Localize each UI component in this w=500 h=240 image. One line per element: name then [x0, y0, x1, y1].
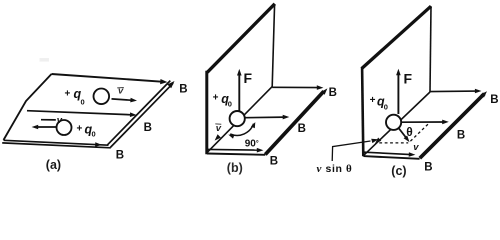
svg-text:v sin θ: v sin θ [317, 163, 353, 175]
svg-text:(c): (c) [391, 164, 406, 178]
svg-text:0: 0 [228, 100, 232, 109]
svg-text:B: B [329, 87, 337, 99]
svg-text:+: + [77, 123, 83, 134]
svg-text:B: B [457, 130, 465, 142]
svg-text:B: B [270, 155, 278, 167]
svg-text:(b): (b) [227, 161, 243, 175]
svg-text:B: B [116, 149, 124, 161]
svg-text:0: 0 [81, 97, 85, 106]
svg-text:90°: 90° [245, 139, 259, 150]
svg-text:B: B [298, 123, 306, 135]
svg-text:B: B [490, 94, 498, 106]
svg-text:v: v [413, 142, 419, 153]
svg-text:F: F [244, 70, 253, 86]
svg-text:+: + [65, 89, 71, 100]
svg-text:F: F [404, 70, 413, 86]
svg-text:B: B [424, 161, 432, 173]
svg-text:+: + [370, 95, 376, 106]
svg-text:B: B [144, 122, 152, 134]
svg-text:v: v [57, 115, 63, 126]
svg-text:B: B [179, 84, 187, 96]
svg-text:+: + [213, 92, 219, 103]
svg-text:0: 0 [92, 130, 96, 139]
svg-text:v: v [118, 85, 124, 96]
svg-text:(a): (a) [46, 158, 61, 172]
svg-text:θ: θ [406, 125, 413, 139]
svg-text:0: 0 [384, 103, 388, 112]
